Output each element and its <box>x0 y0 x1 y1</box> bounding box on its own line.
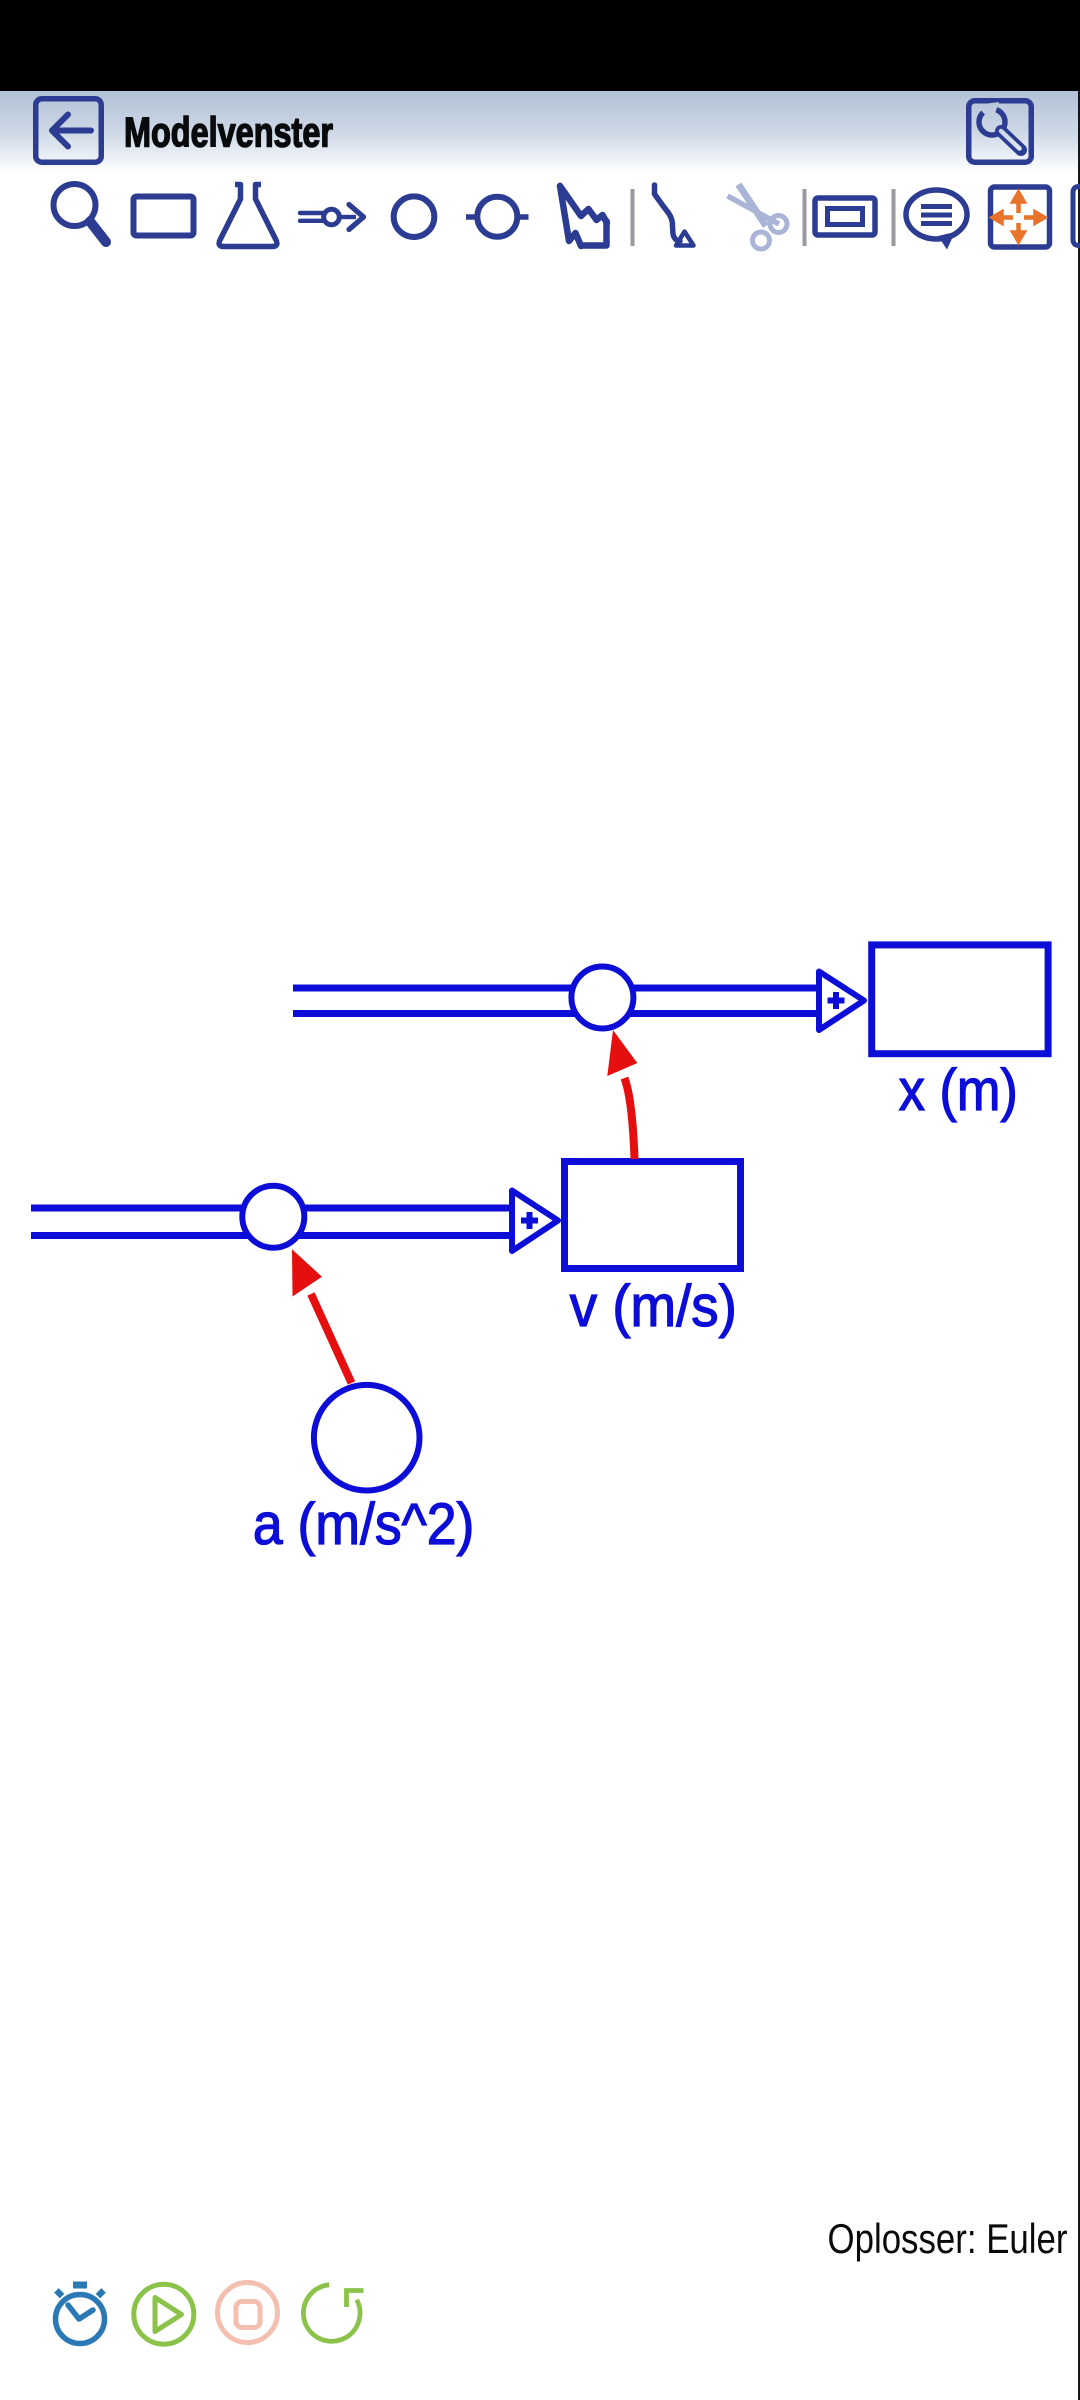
toolbar: relation tool <box>655 185 694 246</box>
valve V2 <box>242 1186 304 1248</box>
toolbar: scissors tool (disabled) <box>728 185 788 250</box>
flow pipe 1 (into x) <box>293 988 819 1014</box>
toolbar: zoom tool <box>54 184 107 242</box>
toolbar: partial icon at right edge <box>1073 187 1080 246</box>
relation arrow a to valve V2 <box>292 1249 352 1383</box>
right screen edge line <box>1078 91 1080 2400</box>
wrench icon <box>976 102 1021 150</box>
toolbar: separator 2 <box>803 189 807 246</box>
toolbar: separator 3 <box>892 189 896 246</box>
svg-text:Modelvenster: Modelvenster <box>124 109 333 156</box>
toolbar: move tool <box>991 187 1050 247</box>
constant a circle <box>314 1385 420 1491</box>
toolbar: comment tool <box>906 190 967 250</box>
flow arrowhead into x <box>819 972 864 1031</box>
svg-text:Oplosser: Euler: Oplosser: Euler <box>828 2215 1068 2262</box>
svg-text:a (m/s^2): a (m/s^2) <box>253 1492 475 1557</box>
play icon <box>134 2284 194 2344</box>
stock x <box>872 945 1048 1054</box>
toolbar: stock tool <box>134 197 194 236</box>
svg-text:v (m/s): v (m/s) <box>570 1274 737 1339</box>
toolbar: separator 1 <box>631 189 635 246</box>
flow arrowhead into v <box>512 1191 558 1252</box>
relation arrow v to valve V1 <box>607 1030 637 1159</box>
back button <box>36 99 102 163</box>
valve V1 <box>571 967 633 1029</box>
svg-text:x (m): x (m) <box>899 1058 1018 1123</box>
header gradient <box>0 91 1080 173</box>
stopwatch icon <box>56 2282 105 2344</box>
toolbar: variable tool <box>466 197 529 237</box>
flow pipe 2 (into v) <box>31 1208 512 1236</box>
reset icon <box>303 2285 363 2341</box>
toolbar: flask tool <box>219 185 277 247</box>
wrench button <box>969 101 1032 163</box>
back arrow <box>52 115 91 147</box>
stock v <box>565 1162 741 1269</box>
stop icon <box>218 2283 278 2343</box>
toolbar: graph tool <box>560 186 607 246</box>
toolbar: constant tool <box>394 196 435 237</box>
toolbar: flow tool <box>300 205 364 230</box>
status bar <box>0 0 1080 91</box>
toolbar: value box tool <box>815 198 875 235</box>
